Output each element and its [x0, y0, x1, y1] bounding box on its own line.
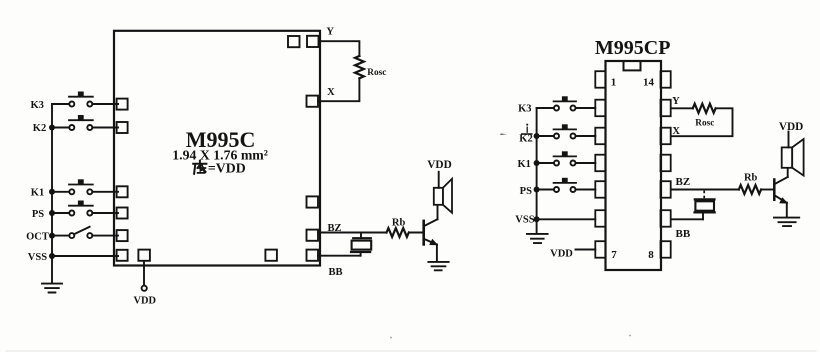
wire VDD to speaker — [438, 172, 440, 188]
pin 7 rect VDD — [595, 241, 605, 258]
svg-text:1: 1 — [611, 77, 617, 89]
speck — [390, 337, 392, 339]
pin 8 rect — [661, 241, 671, 258]
svg-text:=VDD: =VDD — [208, 160, 246, 175]
transistor Q2 (NPN) — [773, 180, 776, 200]
wire Rosc to X pin — [318, 78, 359, 101]
wire BB pin to piezo — [318, 255, 361, 257]
chip U2 DIP body — [606, 61, 662, 270]
svg-text:Rosc: Rosc — [367, 68, 386, 78]
left bus wire vertical — [51, 104, 53, 282]
ground GND4 under Q2 — [774, 218, 799, 227]
pin 10 rect BZ — [661, 181, 671, 198]
resistor Rb (horizontal zigzag) — [387, 228, 409, 237]
svg-text:Rb: Rb — [744, 172, 758, 183]
wire VDD to pin 7 — [576, 249, 596, 251]
ground GND3 under VSS bus — [527, 234, 548, 243]
svg-text:M995CP: M995CP — [595, 37, 671, 59]
terminal circle VDD — [142, 286, 147, 291]
svg-text:7: 7 — [611, 249, 617, 261]
pin 9 rect BB — [661, 210, 671, 227]
pin square left K1 — [117, 186, 128, 197]
chip U1 M995C body outline — [114, 31, 320, 266]
wire BZ pin to Rb — [671, 189, 739, 191]
wire BB pin to piezo — [671, 218, 703, 220]
chip U1 label 底=VDD (底 drawn as strokes) — [193, 161, 206, 174]
junction dot K2/bus — [49, 125, 55, 131]
switch S9 PS (pushbutton) — [537, 189, 596, 191]
svg-text:BB: BB — [676, 228, 691, 240]
resistor Rosc (vertical zigzag) — [355, 56, 364, 78]
svg-text:BB: BB — [328, 267, 342, 278]
junction dot VSS/bus (right) — [534, 216, 540, 222]
svg-text:K1: K1 — [517, 159, 530, 170]
piezo buzzer BZ1 — [360, 233, 362, 238]
pin 12 rect X — [661, 128, 671, 145]
svg-text:Rosc: Rosc — [695, 118, 714, 128]
svg-text:K2: K2 — [519, 133, 532, 144]
svg-text:K1: K1 — [31, 188, 44, 199]
svg-text:VDD: VDD — [134, 295, 157, 306]
pin 13 rect Y — [661, 100, 671, 117]
pin square top unconnected — [288, 36, 300, 47]
pin 5 rect PS — [595, 181, 605, 198]
wire VSS row — [52, 255, 118, 257]
speaker LS1 — [434, 188, 443, 205]
svg-text:8: 8 — [648, 249, 654, 261]
svg-text:PS: PS — [520, 186, 532, 197]
faint scan edge line bottom — [6, 350, 816, 352]
svg-text:PS: PS — [32, 209, 44, 220]
svg-text:VSS: VSS — [28, 252, 47, 263]
pin square bottom VDD — [138, 250, 150, 261]
wire Q2 emitter down — [786, 203, 788, 217]
svg-text:K3: K3 — [518, 103, 531, 114]
ground GND1 bottom left — [42, 284, 62, 293]
wire Y pin to Rosc — [671, 107, 693, 109]
pin 6 rect VSS — [595, 210, 605, 227]
svg-text:14: 14 — [643, 77, 655, 89]
junction dot PS/bus — [49, 210, 55, 216]
switch S1 K3 (pushbutton) — [52, 103, 118, 105]
pin 14 rect — [661, 71, 671, 88]
pin square top Y — [307, 36, 319, 47]
svg-text:K2: K2 — [33, 123, 46, 134]
switch S6 K3 (pushbutton) — [537, 107, 596, 109]
stray dash left of K2 — [500, 134, 507, 135]
pin square left K3 — [117, 99, 128, 110]
pin square right unconnected — [307, 196, 319, 207]
chip U2 notch — [624, 61, 641, 70]
switch S5 OCT (SPST toggle) — [52, 235, 118, 237]
pin 2 rect K3 — [595, 100, 605, 117]
junction dot VSS/bus — [49, 253, 55, 259]
resistor Rb (right, horizontal zigzag) — [739, 185, 761, 194]
svg-text:Y: Y — [326, 27, 334, 38]
pin square bottom unconnected — [265, 250, 277, 261]
pin square left OCT — [117, 230, 128, 241]
wire Rb to Q2 base — [762, 189, 775, 191]
wire Rb to Q1 base — [409, 232, 423, 234]
wire BZ pin to Rb — [318, 232, 387, 234]
pin 11 rect unconnected — [661, 155, 671, 172]
wire VDD to speaker (right) — [788, 132, 790, 148]
wire Q1 emitter down — [436, 244, 438, 261]
pin 1 rect — [595, 71, 605, 88]
switch S4 PS (pushbutton) — [52, 212, 118, 214]
ground GND2 under Q1 — [428, 262, 448, 270]
svg-text:VDD: VDD — [779, 121, 803, 133]
svg-text:BZ: BZ — [676, 176, 691, 188]
pin 3 rect K2 — [595, 128, 605, 145]
svg-text:X: X — [327, 87, 335, 98]
junction dot K2/bus (right) — [534, 133, 540, 139]
right bus wire vertical — [536, 108, 538, 232]
wire bottom VDD pin — [143, 261, 145, 286]
tick mark above K2 — [526, 127, 528, 132]
pin square left VSS — [117, 250, 128, 261]
speck — [629, 335, 631, 337]
switch S8 K1 (pushbutton) — [537, 162, 596, 164]
pin square left PS — [117, 208, 128, 219]
svg-text:OCT: OCT — [26, 231, 49, 242]
svg-text:Y: Y — [672, 96, 680, 107]
pin square right BB — [307, 250, 319, 261]
speaker LS2 — [782, 147, 793, 167]
wire Y pin to Rosc — [319, 41, 359, 56]
svg-text:VDD: VDD — [550, 248, 573, 259]
switch S3 K1 (pushbutton) — [52, 191, 118, 193]
wire Rosc to X pin — [671, 108, 733, 136]
switch S7 K2 (pushbutton) — [537, 135, 596, 137]
pin square left K2 — [117, 122, 128, 133]
pin square right X — [307, 96, 319, 107]
switch S2 K2 (pushbutton) — [52, 127, 118, 129]
svg-text:Rb: Rb — [392, 218, 406, 229]
svg-text:VDD: VDD — [427, 159, 451, 171]
piezo buzzer BZ2 — [703, 191, 705, 199]
pin 4 rect K1 — [595, 155, 605, 172]
junction dot PS/bus (right) — [534, 187, 540, 193]
svg-text:VSS: VSS — [515, 215, 534, 226]
wire Q1 collector to speaker — [437, 205, 439, 220]
svg-text:K3: K3 — [30, 100, 43, 111]
pin square right BZ — [307, 230, 319, 241]
wire VSS row (right) — [537, 218, 596, 220]
wire Q2 collector to speaker — [787, 168, 789, 177]
junction dot K1/bus — [49, 189, 55, 195]
junction dot OCT/bus — [49, 233, 55, 239]
resistor Rosc (right, horizontal zigzag) — [693, 104, 716, 113]
junction dot K1/bus (right) — [534, 160, 540, 166]
transistor Q1 (NPN) — [422, 221, 425, 245]
